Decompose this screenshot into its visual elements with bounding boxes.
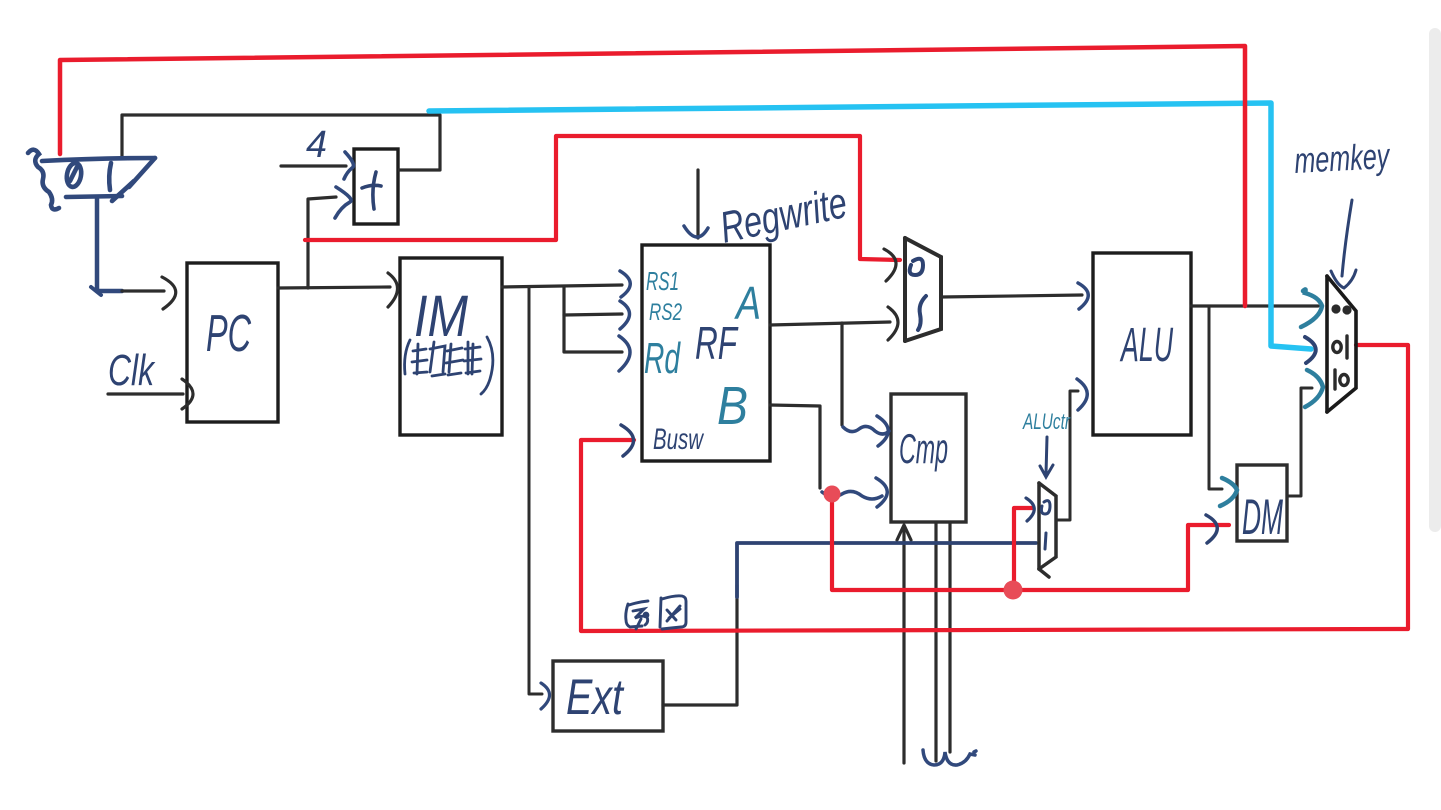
svg-text:Rd: Rd (644, 334, 681, 383)
label (instruction memory) scribble (405, 337, 493, 394)
cyan arrow into memkey mux input 01 (1305, 337, 1316, 363)
svg-text:Ext: Ext (566, 669, 625, 725)
RF box (642, 245, 770, 461)
PC register box (187, 263, 278, 422)
PC mux (navy trapezoid, inputs 0 and 1) (28, 150, 155, 210)
wire: RF A output to A-mux input 1 (770, 322, 890, 325)
IM box (400, 258, 502, 435)
wire: PC value tap to adder lower input (308, 197, 336, 288)
memkey arrow down to mux (1331, 200, 1356, 288)
A-mux (inputs 0/1, output to ALU) (905, 238, 941, 341)
wire: Ext output up to ALUctr mux input 1 (663, 585, 737, 705)
ALU box (1093, 253, 1191, 435)
svg-text:memkey: memkey (1293, 135, 1391, 181)
svg-text:Busw: Busw (653, 423, 705, 456)
wire: A tap down to Cmp input 1 (840, 323, 843, 425)
svg-text:IM: IM (414, 284, 469, 349)
svg-text:4: 4 (306, 124, 327, 166)
wire: PC output to IM (278, 287, 390, 288)
wire: RegWrite control into RF top (696, 170, 699, 238)
wire: PC mux output into PC (97, 199, 122, 291)
svg-text:RS2: RS2 (649, 299, 682, 326)
wire: DM output up to memkey mux input 10 (1287, 388, 1312, 496)
wire: instruction tap to RS2 and Rd (562, 286, 565, 352)
wire: red write-back from memkey mux to RF Busw (581, 345, 1408, 631)
svg-text:RS1: RS1 (646, 266, 679, 296)
wire: red RegWrite control to A-mux input 0 (305, 136, 900, 260)
memkey mux (inputs 00/01/10) (1327, 276, 1356, 412)
Ext box (553, 661, 663, 731)
svg-text:ALU: ALU (1119, 319, 1173, 372)
scrollbar thumb (right edge) (1429, 28, 1441, 532)
svg-text:Cmp: Cmp (899, 425, 948, 472)
memkey mux input labels 00 / 01 / 10 (1331, 304, 1351, 314)
wire: cyan PC+4 to memkey mux input 01 (429, 103, 1311, 349)
junction dot on B line (824, 486, 841, 503)
svg-text:DM: DM (1242, 489, 1283, 545)
junction dot on store-data line (1004, 581, 1023, 600)
ALUctr arrow down to mux (1040, 437, 1053, 477)
wire: ALU output tap down to DM address input (1209, 306, 1222, 489)
wire: black PC+4 loop back to PC mux input 1 (122, 115, 440, 170)
wire: red PC feedback top loop (ALU out to PC mux input 0) (60, 46, 1245, 306)
wire: instruction tap down to Ext (529, 287, 542, 694)
wire: A-mux output to ALU input 1 (941, 295, 1082, 297)
svg-text:Clk: Clk (108, 346, 155, 395)
svg-text:PC: PC (206, 305, 251, 363)
wire: constant 4 into adder (281, 164, 346, 167)
svg-text:Regwrite: Regwrite (716, 178, 851, 253)
wire: Cmp bottom control lines (902, 527, 905, 763)
svg-text:ALUctr: ALUctr (1022, 409, 1072, 434)
ALUctr mux (inputs 0/1) (1039, 483, 1056, 577)
wire: clk into PC (108, 392, 183, 395)
Cmp box (891, 394, 966, 522)
wire: red store-data from B to ALUctr mux and DM (832, 494, 1229, 590)
plus sign in adder (362, 172, 381, 209)
label 写回 (write back) (626, 596, 686, 629)
wire: ALUctr mux output up to ALU input 2 (1056, 391, 1078, 520)
wire: ALU output to memkey mux input 00 (1191, 304, 1318, 307)
wire: IM output to RF RS1 (502, 285, 622, 287)
adder (+) box (354, 149, 398, 224)
DM box (1237, 465, 1287, 541)
svg-text:A: A (734, 277, 761, 329)
svg-text:RF: RF (695, 317, 739, 369)
svg-text:B: B (717, 376, 748, 436)
wire: RF B output down to Cmp input 2 (770, 405, 820, 488)
